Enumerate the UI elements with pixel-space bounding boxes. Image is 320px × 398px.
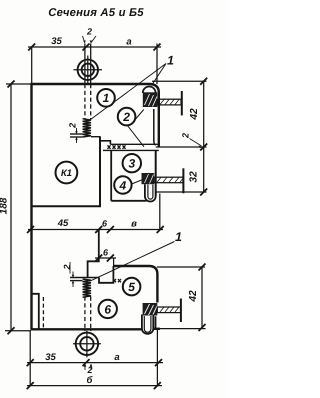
- svg-text:в: в: [131, 219, 137, 230]
- svg-text:42: 42: [188, 290, 199, 303]
- svg-text:а: а: [126, 37, 131, 48]
- svg-text:1: 1: [167, 54, 174, 68]
- bottom dimension line 35 / a: [27, 329, 163, 386]
- K1 panel right edge and bottom edge: [31, 137, 101, 207]
- bolt 3 horizontal: [157, 307, 180, 313]
- middle chain dimension 45 / 6 / в: [27, 226, 164, 233]
- dimension 42 right bottom: [157, 264, 206, 332]
- seam lines top (2 gap): [70, 134, 101, 137]
- mullion profile top cap: [143, 86, 156, 93]
- callout circle 4: [114, 176, 131, 193]
- notch bottom left: [32, 294, 39, 330]
- svg-text:4: 4: [119, 178, 127, 192]
- weld x-marks bottom: [113, 279, 121, 282]
- leader circle 2 to anchor block: [134, 110, 144, 122]
- anchor block 2: [142, 173, 155, 184]
- anchor block 1: [143, 92, 158, 107]
- callout circle 1: [97, 89, 115, 107]
- callout circle K1: [56, 162, 78, 184]
- svg-text:а: а: [114, 352, 119, 363]
- svg-text:35: 35: [51, 36, 62, 47]
- foot inner slot: [148, 185, 153, 200]
- svg-text:6: 6: [104, 302, 111, 316]
- svg-text:1: 1: [175, 230, 182, 244]
- svg-text:2: 2: [122, 110, 130, 124]
- left panel stepped right edge: [88, 230, 99, 278]
- staircase K1 edge to plate: [100, 141, 110, 145]
- svg-text:188: 188: [0, 197, 10, 214]
- svg-text:2: 2: [86, 27, 92, 37]
- panel top edge with rounded right corner: [31, 84, 159, 147]
- panel left edge: [30, 84, 32, 329]
- svg-text:2: 2: [68, 123, 78, 129]
- bolt thread zigzag top: [83, 119, 91, 137]
- dimension 6 lower section: [95, 255, 116, 262]
- dimension 2 left seam bottom: [69, 262, 71, 274]
- svg-text:6: 6: [103, 248, 109, 258]
- anchor block 3: [143, 303, 158, 316]
- seam lines bottom: [70, 278, 99, 281]
- dimension 32 right: [156, 147, 207, 196]
- svg-text:45: 45: [57, 218, 69, 229]
- svg-text:35: 35: [45, 352, 56, 363]
- svg-text:б: б: [87, 375, 94, 386]
- callout circle 5: [123, 278, 141, 296]
- right panel top edge with rounded corner: [113, 266, 157, 303]
- bolt shaft vertical top: [85, 44, 91, 120]
- leader circle 4: [132, 180, 142, 184]
- dimension 188 vertical line: [5, 81, 31, 335]
- leader circle 2 to plate: [127, 125, 144, 147]
- svg-text:6: 6: [102, 219, 108, 229]
- profile foot bottom section: [142, 315, 153, 334]
- svg-text:Сечения А5 и Б5: Сечения А5 и Б5: [48, 7, 144, 19]
- weld x-marks: [108, 145, 126, 149]
- edge below anchor: [155, 316, 157, 329]
- profile foot with rounded bottom: [155, 150, 157, 196]
- svg-text:2: 2: [181, 133, 191, 139]
- bolt head symbol bottom: [73, 343, 101, 345]
- svg-text:К1: К1: [61, 168, 72, 179]
- callout circle 2: [118, 108, 136, 126]
- bolt 1 horizontal: [157, 99, 181, 105]
- bolt 2 horizontal: [154, 177, 183, 183]
- callout circle 6: [99, 300, 117, 318]
- bolt shaft vertical bottom: [85, 297, 91, 332]
- svg-text:42: 42: [189, 108, 200, 121]
- bolt thread zigzag bottom: [83, 279, 91, 297]
- top dimension line 35 / a: [28, 44, 161, 85]
- staircase to right panel: [99, 266, 113, 283]
- slot boundary vertical: [110, 150, 112, 200]
- svg-text:5: 5: [128, 280, 135, 294]
- svg-text:2: 2: [62, 264, 72, 270]
- bottom line of right side: [111, 200, 146, 202]
- callout circle 3: [123, 154, 141, 172]
- svg-text:3: 3: [128, 157, 135, 171]
- bolt head symbol top (circles + crosshair): [74, 69, 103, 71]
- dimension б bottom: [27, 382, 162, 389]
- bottom edge: [31, 328, 142, 330]
- dimension 42 right top: [152, 78, 207, 151]
- svg-text:1: 1: [103, 91, 110, 105]
- joint plate with weld: [103, 144, 159, 150]
- svg-text:32: 32: [189, 171, 200, 183]
- profile inner right wall: [154, 109, 156, 145]
